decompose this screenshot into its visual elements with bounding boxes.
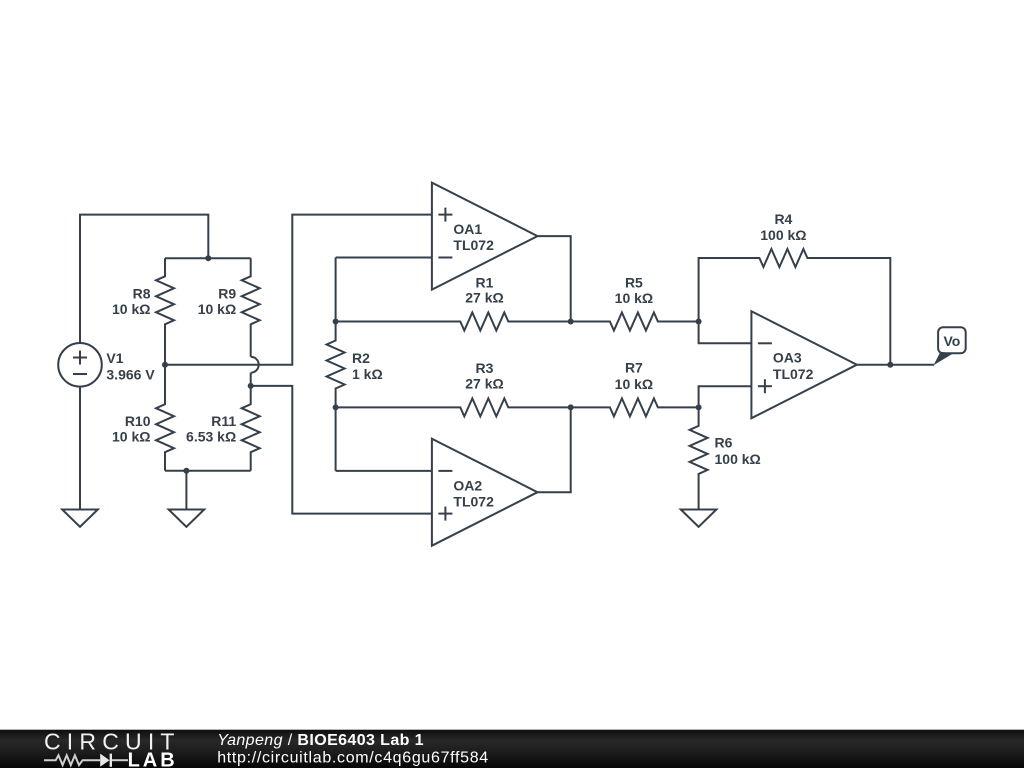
svg-text:R8: R8 bbox=[133, 285, 151, 301]
wire bridge top rail bbox=[165, 257, 251, 259]
node R5 right / R4 / OA3 - bbox=[696, 319, 702, 325]
svg-text:R4: R4 bbox=[774, 211, 792, 227]
node OA1 out / R1 right / R5 left bbox=[568, 319, 574, 325]
svg-text:R6: R6 bbox=[715, 434, 733, 450]
svg-text:3.966 V: 3.966 V bbox=[106, 367, 155, 383]
resistor R8 bbox=[112, 258, 174, 365]
svg-text:Yanpeng / BIOE6403 Lab 1: Yanpeng / BIOE6403 Lab 1 bbox=[217, 732, 424, 749]
ground under V1 bbox=[62, 510, 98, 527]
svg-text:10 kΩ: 10 kΩ bbox=[198, 301, 236, 317]
wire R9 hop to node B bbox=[250, 373, 252, 386]
op-amp OA1 bbox=[432, 183, 538, 290]
wire to OA3 + input bbox=[699, 386, 752, 407]
node R2 top / R1 left bbox=[333, 319, 339, 325]
svg-text:LAB: LAB bbox=[128, 749, 178, 768]
wire bridge bottom to ground bbox=[185, 471, 187, 510]
resistor R10 bbox=[112, 365, 174, 471]
node A (R8/R10 mid) bbox=[162, 362, 168, 368]
svg-text:R5: R5 bbox=[625, 274, 643, 290]
svg-text:R1: R1 bbox=[476, 274, 494, 290]
node Vo flag bbox=[934, 327, 966, 365]
wire bridge bottom rail bbox=[165, 470, 251, 472]
svg-text:R10: R10 bbox=[125, 413, 151, 429]
ground under bridge bbox=[169, 510, 205, 527]
svg-text:10 kΩ: 10 kΩ bbox=[112, 429, 150, 445]
wire node A to OA1 + input bbox=[165, 215, 432, 365]
svg-text:R7: R7 bbox=[625, 359, 643, 375]
svg-text:R11: R11 bbox=[211, 413, 236, 429]
resistor R3 bbox=[336, 360, 571, 416]
resistor R7 bbox=[571, 359, 699, 416]
node R2 bottom / R3 left bbox=[333, 404, 339, 410]
resistor R1 bbox=[336, 274, 571, 330]
svg-text:10 kΩ: 10 kΩ bbox=[615, 290, 653, 306]
wire OA1 output bbox=[538, 236, 571, 321]
resistor R11 bbox=[186, 386, 260, 471]
CircuitLab logo bbox=[44, 728, 181, 768]
node bridge-bottom junction bbox=[183, 468, 189, 474]
svg-text:27 kΩ: 27 kΩ bbox=[465, 289, 503, 305]
resistor R5 bbox=[571, 274, 699, 330]
wire V1 top to bridge top bbox=[80, 215, 208, 343]
wire V1 bottom to ground bbox=[79, 387, 81, 510]
wire OA3 output bbox=[857, 364, 934, 366]
node bridge-top junction bbox=[205, 255, 211, 261]
svg-text:V1: V1 bbox=[106, 350, 123, 366]
svg-text:R3: R3 bbox=[476, 360, 494, 376]
svg-text:R2: R2 bbox=[352, 350, 370, 366]
node OA2 out / R3 right / R7 left bbox=[568, 404, 574, 410]
wire node B to OA2 + input bbox=[251, 386, 432, 514]
svg-text:TL072: TL072 bbox=[453, 493, 494, 509]
wire hop of R9 column over mid rail bbox=[251, 357, 259, 373]
svg-text:OA1: OA1 bbox=[453, 221, 482, 237]
svg-text:27 kΩ: 27 kΩ bbox=[465, 376, 503, 392]
svg-text:100 kΩ: 100 kΩ bbox=[760, 227, 806, 243]
svg-text:TL072: TL072 bbox=[453, 237, 494, 253]
svg-text:http://circuitlab.com/c4q6gu67: http://circuitlab.com/c4q6gu67ff584 bbox=[217, 749, 489, 766]
wire OA2 output bbox=[538, 407, 571, 492]
op-amp OA3 bbox=[751, 311, 857, 418]
voltage source V1 bbox=[58, 343, 155, 387]
svg-text:R9: R9 bbox=[218, 285, 236, 301]
ground under R6 bbox=[681, 510, 717, 527]
node R7 right / R6 / OA3 + bbox=[696, 404, 702, 410]
resistor R6 bbox=[690, 407, 761, 509]
op-amp OA2 bbox=[432, 439, 538, 546]
resistor R2 bbox=[327, 258, 383, 471]
svg-text:10 kΩ: 10 kΩ bbox=[112, 301, 150, 317]
wire OA1 - input bbox=[336, 257, 432, 259]
svg-text:TL072: TL072 bbox=[773, 366, 814, 382]
resistor R9 bbox=[198, 258, 260, 357]
svg-text:6.53 kΩ: 6.53 kΩ bbox=[186, 429, 236, 445]
svg-text:OA3: OA3 bbox=[773, 350, 802, 366]
svg-text:100 kΩ: 100 kΩ bbox=[715, 451, 761, 467]
node B (R9/R11 mid) bbox=[248, 383, 254, 389]
resistor R4 bbox=[699, 211, 891, 365]
svg-text:10 kΩ: 10 kΩ bbox=[615, 376, 653, 392]
svg-text:OA2: OA2 bbox=[453, 477, 482, 493]
wire OA2 - input bbox=[336, 470, 432, 472]
wire to OA3 - input bbox=[699, 322, 752, 344]
svg-text:1 kΩ: 1 kΩ bbox=[352, 366, 383, 382]
node OA3 out / R4 right bbox=[887, 362, 893, 368]
svg-text:Vo: Vo bbox=[943, 333, 960, 349]
